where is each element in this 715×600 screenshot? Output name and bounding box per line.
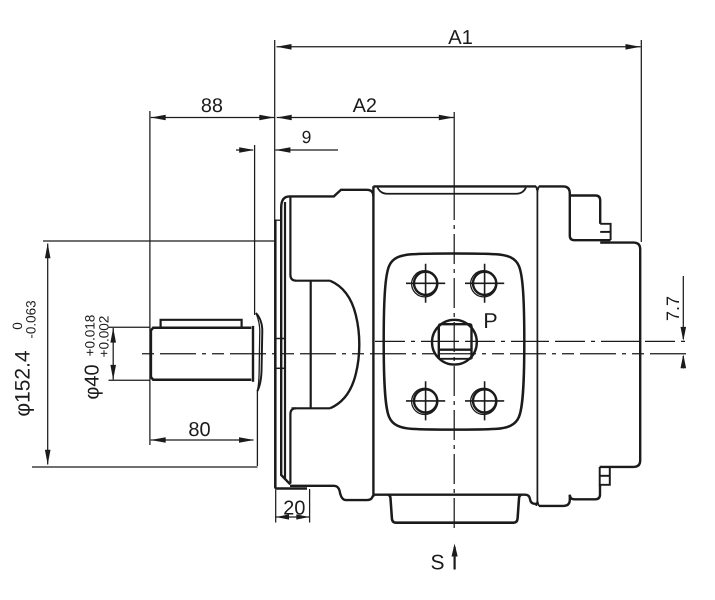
- body left edge (bell to body joint): [372, 186, 374, 495]
- port bore circle: [432, 320, 477, 365]
- upper small lug: [600, 224, 610, 240]
- dim A2 label: [353, 98, 376, 112]
- lower small lug divider: [600, 475, 610, 477]
- suction pad outline: [388, 495, 522, 523]
- dim phi152.4 dimension line: [47, 244, 49, 465]
- port opening square: [439, 324, 472, 359]
- dim A1 extension line right: [640, 40, 642, 242]
- dim 20 extension line left: [275, 490, 277, 523]
- dim 80 arrow left: [151, 437, 166, 443]
- bell interior chord line: [310, 281, 312, 408]
- rear cover right edge lower: [563, 495, 570, 506]
- dim 7.7 upper line with down arrow: [682, 276, 684, 339]
- front cover bottom edge: [290, 486, 375, 500]
- bolt hole top-left: [406, 264, 445, 303]
- flange bottom edge: [275, 487, 307, 489]
- dim 88 arrow left: [151, 115, 166, 121]
- suction flow arrow: [454, 547, 456, 570]
- lower small lug: [600, 467, 610, 485]
- dim 9 dimension line right: [276, 149, 339, 151]
- dim phi152.4 arrow up: [45, 243, 51, 258]
- dim phi152.4 arrow down: [45, 450, 51, 465]
- flange top edge: [275, 219, 282, 221]
- dim phi40 arrow up: [110, 328, 116, 343]
- port face outline (rounded square pad): [384, 253, 525, 429]
- body top chamfer line: [378, 188, 527, 194]
- lower boss outline: [570, 485, 600, 499]
- dim A1 label: [448, 30, 472, 44]
- port opening bottom edge: [439, 358, 472, 360]
- shaft bore tangent lower: [276, 367, 285, 369]
- dim phi152.4 tolerance lower -0.063: [26, 301, 35, 338]
- dim 80 arrow right: [239, 437, 254, 443]
- dim 20 arrow left: [276, 514, 289, 519]
- port opening inner line: [439, 349, 472, 351]
- dim 9 tail line left: [236, 149, 253, 151]
- bell interior bulge arc: [330, 281, 359, 409]
- dim phi40 dimension line: [112, 328, 114, 380]
- right port block top edge inner: [600, 241, 610, 243]
- dim phi40 extension line top: [109, 326, 151, 328]
- dim 9 arrow left (points right at ext line): [239, 147, 254, 153]
- front cover left edge: [281, 207, 290, 484]
- dim A2 arrow right: [439, 115, 454, 121]
- bell interior top edge: [296, 280, 331, 282]
- bolt hole bottom-left: [406, 381, 445, 420]
- front cover (bell) outline top: [281, 190, 373, 208]
- centerline shaft axis (horizontal dash-dot): [142, 353, 688, 355]
- dim phi40 arrow down: [110, 365, 116, 380]
- shaft seal washer inner edge: [256, 313, 260, 391]
- dim A1 extension line left: [274, 40, 276, 221]
- dim 20 dimension line: [276, 516, 309, 518]
- shaft key: [161, 320, 242, 327]
- right port block top edge: [611, 243, 641, 250]
- dim phi40 tolerance upper +0.018: [85, 315, 95, 355]
- dim 9 extension line: [254, 145, 256, 315]
- body-cover joint notch top: [536, 186, 539, 191]
- bolt hole top-right: [465, 264, 504, 303]
- spigot face line: [256, 390, 258, 466]
- dim 80 label: [189, 422, 210, 436]
- front cover inner left edge upper: [290, 197, 296, 281]
- body-cover joint line: [536, 191, 538, 504]
- dim 20 arrow right: [296, 514, 309, 519]
- dim A2 arrow left: [277, 115, 292, 121]
- shaft seal washer outer edge: [256, 313, 262, 391]
- upper small lug divider: [600, 231, 610, 233]
- shaft body: [151, 328, 251, 380]
- dim 7.7 label: [667, 297, 679, 320]
- dim A1 arrow right: [626, 44, 641, 50]
- dim 88 dimension line: [151, 117, 275, 119]
- body bottom edge: [373, 495, 536, 504]
- dim phi152.4 extension line top: [43, 240, 276, 242]
- dim 88 extension line left: [149, 111, 151, 445]
- dim A1 dimension line: [277, 46, 641, 48]
- rear cover bottom edge: [539, 505, 564, 507]
- dim phi40 extension line bottom: [109, 379, 151, 381]
- dim 88 arrow right: [259, 115, 274, 121]
- flange front face line: [274, 220, 277, 489]
- dim 9 arrow right (points left at flange face): [275, 147, 290, 153]
- dim phi152.4 extension line bottom: [32, 466, 258, 468]
- suction label S: [432, 555, 444, 570]
- dim phi40 label: [85, 365, 103, 399]
- dim phi152.4 label: [15, 351, 34, 416]
- shaft bore tangent upper: [276, 338, 285, 340]
- dim 20 label: [284, 501, 304, 515]
- body-cover joint notch bottom: [536, 501, 539, 506]
- front cover left edge middle line: [284, 202, 286, 479]
- dim 80 dimension line: [151, 439, 254, 441]
- upper boss outline: [570, 196, 600, 224]
- dim 7.7 lower line with up arrow: [682, 356, 684, 369]
- front cover inner left edge lower: [290, 408, 296, 483]
- port label P: [485, 313, 496, 328]
- body top edge: [373, 185, 536, 187]
- dim phi40 tolerance lower +0.002: [99, 316, 109, 356]
- dim A2 dimension line: [277, 117, 454, 119]
- bolt hole bottom-right: [465, 381, 504, 420]
- right port block bottom edge: [600, 466, 634, 468]
- dim 88 label: [202, 98, 222, 112]
- centerline port vertical axis: [453, 112, 455, 190]
- dim A1 arrow left: [277, 44, 292, 50]
- dim phi152.4 tolerance upper 0: [13, 323, 23, 329]
- rear cover right edge upper: [570, 193, 575, 240]
- upper boss bottom edge: [574, 239, 611, 241]
- shaft end shoulder: [252, 326, 254, 382]
- centerline cartridge axis (horizontal dash-dot upper): [375, 340, 688, 342]
- bell interior bottom edge: [292, 407, 331, 409]
- right port block right edge: [634, 249, 641, 467]
- dim 20 extension line right: [309, 489, 311, 523]
- dim 9 label: [303, 131, 311, 143]
- rear cover top edge: [539, 186, 570, 193]
